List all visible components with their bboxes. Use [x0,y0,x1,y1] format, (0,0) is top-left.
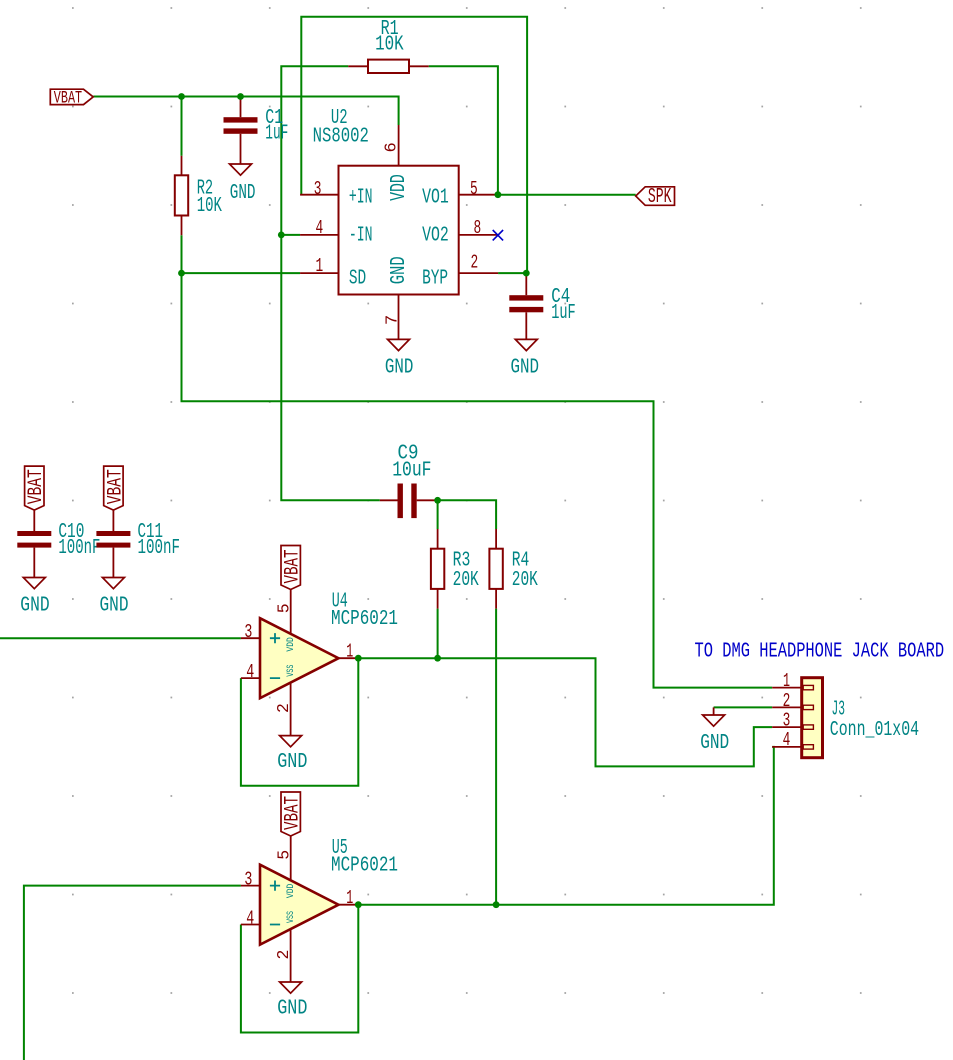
ground (U5) [280,982,302,993]
svg-text:VBAT: VBAT [104,469,127,504]
svg-text:VO1: VO1 [422,186,449,210]
svg-text:5: 5 [275,850,294,860]
svg-text:-IN: -IN [349,223,373,247]
wire: VBAT rail to VDD pin 6 [93,97,398,126]
power flag VBAT (U5) [281,792,300,836]
svg-text:VDD: VDD [285,884,297,898]
junction [278,232,285,239]
svg-text:2: 2 [274,950,293,960]
svg-text:GND: GND [20,593,49,617]
svg-text:6: 6 [383,142,402,152]
svg-text:VDD: VDD [387,174,411,201]
U2 pin 8 VO2 [459,234,498,236]
power flag VBAT (U4) [281,546,300,590]
svg-text:3: 3 [783,710,791,732]
resistor R1 [348,65,368,67]
svg-text:3: 3 [314,178,322,200]
svg-text:+IN: +IN [349,186,373,210]
U2 pin 5 VO1 [459,194,498,196]
svg-text:4: 4 [316,217,324,239]
wire: VO1 to SPK [498,194,636,196]
svg-text:1: 1 [346,887,353,909]
svg-text:4: 4 [783,729,791,751]
svg-text:VBAT: VBAT [281,796,304,830]
wire: SD pin [182,272,301,274]
svg-text:1: 1 [316,255,324,277]
svg-text:Conn_01x04: Conn_01x04 [830,718,919,742]
svg-text:TO DMG HEADPHONE JACK BOARD: TO DMG HEADPHONE JACK BOARD [695,640,945,664]
svg-text:20K: 20K [512,568,538,592]
ground (U4) [280,736,302,747]
wire: R2 bottom to SD row, down and across to J3 pin1 [182,235,773,687]
net flag SPK [636,187,675,206]
svg-text:MCP6021: MCP6021 [331,854,398,878]
power flag VBAT (C10) [25,466,44,510]
svg-text:VBAT: VBAT [25,469,48,504]
gnd tri [703,715,725,726]
ground (J3 pin2) [713,707,715,715]
svg-text:SPK: SPK [648,185,672,209]
wire: C9 out to R3 top [437,500,439,529]
svg-text:2: 2 [274,703,293,713]
svg-text:GND: GND [100,593,129,617]
ground (C10) [23,578,45,589]
svg-text:VBAT: VBAT [281,550,304,584]
svg-text:1: 1 [783,670,790,692]
U2 pin 7 GND [398,295,400,340]
svg-text:GND: GND [277,750,307,774]
capacitor C1 [240,97,242,118]
junction [495,191,502,198]
op-amp U4 MCP6021 [290,590,292,635]
wire: R3 bottom to U4 out row [437,609,439,659]
svg-text:SD: SD [349,267,366,291]
wire: J3 pin4 down to U5 output row [358,747,774,905]
op-amp U5 MCP6021 [290,836,292,881]
svg-text:GND: GND [385,355,414,379]
U2 pin 1 SD [300,272,338,274]
wire: top feedback loop R1/VDD to BYP column [301,17,527,273]
wire: U5 +input from bottom left [24,886,241,1060]
svg-text:3: 3 [244,621,252,643]
junction [355,655,362,662]
wire: U5 feedback loop [241,905,358,1033]
svg-text:8: 8 [474,217,482,239]
capacitor C4 [525,273,527,295]
svg-text:GND: GND [511,355,540,379]
ground (C11) [102,578,124,589]
junction [237,93,244,100]
svg-text:2: 2 [471,252,479,274]
power flag VBAT (left) [50,89,93,104]
junction [355,901,362,908]
wire: VBAT to R2 top [181,97,183,156]
junction [434,655,441,662]
svg-text:7: 7 [384,315,403,325]
op-amp U2 NS8002 body [339,166,459,295]
capacitor C10 [33,510,35,531]
capacitor C11 [112,510,114,531]
svg-text:10K: 10K [197,194,222,218]
svg-text:10uF: 10uF [392,459,431,483]
svg-text:3: 3 [244,868,252,890]
junction [178,270,185,277]
svg-text:GND: GND [277,997,307,1021]
junction [178,93,185,100]
junction [434,497,441,504]
capacitor C9 [380,499,398,501]
svg-text:100nF: 100nF [58,536,100,560]
svg-text:1uF: 1uF [265,122,288,146]
svg-text:VSS: VSS [285,665,297,677]
wire: J3 pin2 to GND [714,706,773,708]
wire: BYP to C4 [498,272,526,274]
svg-text:4: 4 [246,907,254,929]
svg-text:NS8002: NS8002 [313,124,369,148]
ground (C4) [515,339,537,350]
svg-text:4: 4 [246,661,254,683]
svg-text:VDD: VDD [285,637,297,651]
svg-text:VSS: VSS [285,911,297,923]
power flag VBAT (C11) [104,466,123,510]
svg-text:5: 5 [275,603,294,613]
resistor R2 [181,156,183,176]
ground (U2 pin7) [388,339,410,350]
wire: -IN junction to pin 4 [281,234,300,236]
wire: U4 +input from left edge [0,637,241,639]
U2 pin 2 BYP [459,272,498,274]
ground (C1) [230,164,252,175]
svg-text:10K: 10K [375,33,404,57]
wire: R1 right down to VO1 [429,66,498,194]
svg-text:GND: GND [387,256,411,284]
resistor R4 [495,529,497,549]
svg-text:20K: 20K [453,568,479,592]
svg-text:1uF: 1uF [551,301,576,325]
U2 pin 6 VDD [398,125,400,166]
svg-text:BYP: BYP [422,267,448,291]
wire: R1 left down to C9 [281,66,380,500]
connector J3 Conn_01x04 [772,687,802,689]
svg-text:GND: GND [230,181,256,205]
U2 pin 4 -IN [300,234,338,236]
svg-text:100nF: 100nF [138,536,181,560]
no-connect pin 8 [493,230,503,240]
junction [523,270,530,277]
svg-text:MCP6021: MCP6021 [331,607,398,631]
wire: R4 bottom to U5 out row [495,609,497,905]
svg-text:VO2: VO2 [422,223,449,247]
U2 pin 3 +IN [300,194,338,196]
wire: U4 feedback loop [241,658,358,786]
junction [493,901,500,908]
svg-text:1: 1 [346,641,353,663]
resistor R3 [437,529,439,549]
svg-text:VBAT: VBAT [54,88,82,108]
svg-text:5: 5 [470,178,478,200]
wire: C9 out to R4 top [438,500,497,529]
wire: U4 output to J3 pin3 [358,658,772,766]
svg-text:GND: GND [700,731,729,755]
